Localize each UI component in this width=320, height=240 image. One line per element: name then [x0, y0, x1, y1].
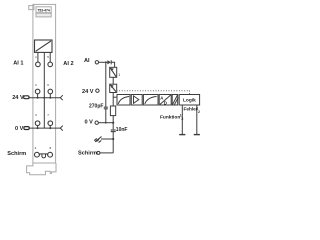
pass-through contact 0V — [60, 126, 63, 131]
svg-text:D: D — [164, 101, 167, 106]
svg-text:0 V: 0 V — [15, 126, 24, 132]
terminal AI2 (5) — [48, 62, 53, 67]
filter box F1 — [117, 95, 130, 106]
svg-text:Schirm: Schirm — [7, 151, 26, 157]
converter diagonal — [36, 41, 51, 51]
wire 10nF to node D — [112, 132, 114, 153]
wire node B to filter chain — [113, 96, 117, 98]
label stripe box — [36, 13, 51, 17]
svg-text:AI: AI — [84, 58, 90, 64]
junction dots 0V — [37, 127, 39, 129]
terminal AI1 (1) — [36, 62, 41, 67]
svg-text:AI 1: AI 1 — [13, 61, 23, 67]
wire diode to corner — [111, 62, 114, 67]
svg-text:2: 2 — [198, 110, 200, 114]
terminal 0V left (3) — [35, 121, 40, 126]
svg-text:24 V: 24 V — [12, 95, 24, 101]
suppressor diode Z1 — [110, 67, 117, 77]
latch tab — [29, 6, 34, 10]
marking label box — [36, 7, 51, 13]
pass-through contact 24V — [60, 95, 63, 100]
wire Schirm — [100, 152, 113, 154]
junction dot on vertical A — [105, 122, 107, 124]
svg-text:Schirm: Schirm — [78, 151, 97, 157]
svg-text:1: 1 — [118, 73, 120, 77]
svg-text:10nF: 10nF — [116, 127, 128, 133]
wire AI input — [99, 61, 108, 63]
resistor R1 — [110, 106, 115, 116]
wire: stub AI1 — [37, 52, 39, 62]
converter box — [35, 40, 53, 52]
0V power rail — [29, 127, 60, 129]
junction dot node D — [112, 138, 114, 140]
terminal Schirm — [97, 151, 100, 154]
wire Z1 to Z2 — [112, 77, 114, 84]
dashed channel-2 line — [117, 91, 190, 95]
isolation box — [172, 95, 178, 106]
suppressor diode Z2 — [110, 84, 117, 92]
Logik box — [179, 95, 199, 106]
terminal 24V right (6) — [48, 89, 53, 94]
filter curve F2 — [145, 97, 157, 104]
svg-text:0 V: 0 V — [85, 120, 94, 126]
amplifier triangle — [134, 96, 139, 103]
chassis ground — [94, 137, 101, 143]
terminal Schirm right (8) — [48, 152, 53, 157]
A/D diagonal — [160, 95, 171, 104]
terminal 0V right (7) — [48, 121, 53, 126]
stub 0V left — [37, 126, 39, 129]
diode D1 — [107, 60, 111, 64]
shield clamp bar — [40, 154, 48, 156]
power feed symbol 24V — [24, 96, 29, 99]
wire R1 to 0V node — [112, 116, 114, 130]
wire vertical A lower — [105, 109, 107, 123]
module body outline — [27, 4, 56, 174]
svg-text:AI 2: AI 2 — [63, 61, 73, 67]
stub 24V right — [49, 94, 51, 98]
terminal 24V — [96, 89, 99, 92]
svg-text:2: 2 — [181, 117, 183, 121]
amplifier box — [131, 95, 142, 106]
svg-text:24 V: 24 V — [82, 89, 94, 95]
wire Funktion — [181, 105, 183, 134]
isolation diagonals — [173, 95, 178, 105]
capacitor 270pF — [104, 106, 108, 108]
filter curve F1 — [118, 97, 129, 104]
bus bar Funktion — [179, 134, 185, 136]
wire: center supply line — [43, 52, 45, 128]
svg-text:753-474: 753-474 — [37, 8, 50, 12]
svg-text:270pF: 270pF — [89, 104, 103, 110]
terminal 24V left (2) — [35, 89, 40, 94]
wire Fehler — [196, 105, 198, 134]
junction dot node C — [112, 122, 114, 124]
24V power rail — [29, 97, 60, 99]
stub 24V left — [37, 94, 39, 98]
wire Z2 down to node B — [112, 93, 114, 107]
bus bar Fehler — [194, 134, 200, 136]
shield clamp loop — [42, 154, 46, 158]
wire 0V — [98, 122, 113, 124]
power feed symbol 0V — [24, 127, 29, 130]
wire: stub AI2 — [49, 52, 51, 62]
wire vertical A upper — [105, 62, 107, 107]
capacitor 10nF — [111, 129, 116, 131]
terminal AI — [95, 61, 98, 64]
wire node D to chassis ground — [101, 138, 113, 140]
junction node A — [105, 61, 107, 63]
filter box F2 — [143, 95, 158, 106]
A/D converter box — [159, 95, 171, 106]
stub 0V right — [49, 126, 51, 129]
svg-text:Funktion: Funktion — [160, 114, 180, 120]
terminal Schirm left (4) — [35, 152, 40, 157]
terminal 0V — [95, 121, 98, 124]
DIN rail foot — [27, 163, 56, 175]
junction dots 24V — [37, 97, 39, 99]
svg-text:Logik: Logik — [183, 98, 196, 104]
